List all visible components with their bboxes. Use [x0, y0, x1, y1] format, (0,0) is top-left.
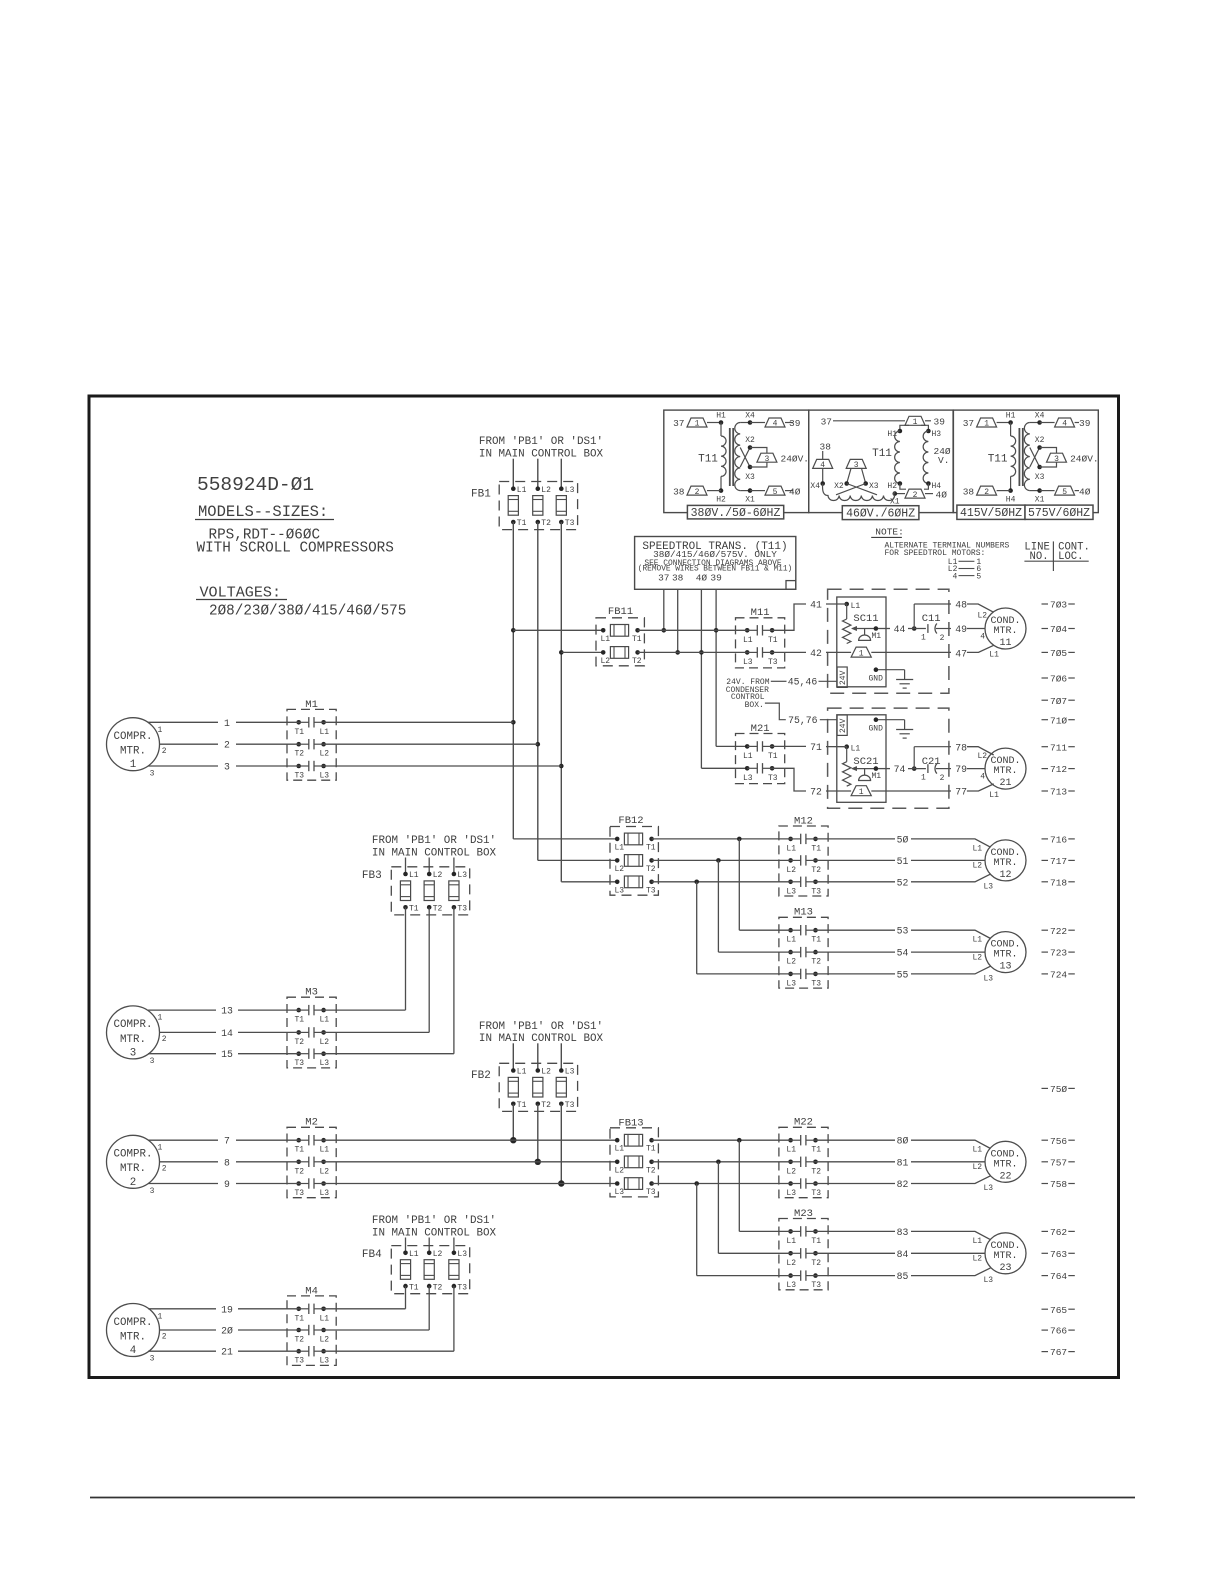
svg-text:MTR.: MTR. — [993, 1159, 1017, 1170]
svg-text:IN MAIN CONTROL BOX: IN MAIN CONTROL BOX — [372, 1227, 497, 1239]
svg-text:79: 79 — [955, 764, 967, 775]
svg-text:T2: T2 — [295, 1336, 305, 1345]
svg-text:T2: T2 — [295, 750, 305, 759]
svg-text:T1: T1 — [646, 843, 656, 852]
svg-text:575V/6ØHZ: 575V/6ØHZ — [1028, 507, 1090, 520]
svg-text:767: 767 — [1050, 1347, 1067, 1358]
svg-text:L2: L2 — [786, 1167, 796, 1176]
svg-text:T2: T2 — [433, 905, 443, 914]
svg-text:84: 84 — [897, 1249, 909, 1260]
svg-text:4: 4 — [1062, 420, 1067, 429]
svg-text:763: 763 — [1050, 1249, 1067, 1260]
svg-text:415V/5ØHZ: 415V/5ØHZ — [960, 507, 1022, 520]
svg-text:7Ø6: 7Ø6 — [1050, 674, 1067, 685]
svg-text:2: 2 — [162, 1333, 167, 1342]
svg-text:T1: T1 — [811, 844, 821, 853]
svg-text:GND: GND — [869, 675, 884, 684]
svg-text:53: 53 — [897, 926, 909, 937]
svg-text:758: 758 — [1050, 1179, 1067, 1190]
svg-text:4: 4 — [773, 420, 778, 429]
svg-text:2Ø: 2Ø — [221, 1326, 233, 1337]
svg-text:T1: T1 — [768, 752, 778, 761]
svg-text:MTR.: MTR. — [120, 1331, 146, 1343]
svg-text:T2: T2 — [811, 1259, 821, 1268]
svg-text:L1: L1 — [320, 1016, 330, 1025]
svg-text:L1: L1 — [786, 844, 796, 853]
svg-text:75Ø: 75Ø — [1050, 1084, 1067, 1095]
svg-text:L3: L3 — [320, 1059, 330, 1068]
svg-text:T3: T3 — [457, 905, 467, 914]
svg-text:45,46: 45,46 — [788, 677, 818, 688]
svg-text:L2: L2 — [320, 1038, 330, 1047]
svg-text:T3: T3 — [811, 887, 821, 896]
svg-text:FROM 'PB1' OR 'DS1': FROM 'PB1' OR 'DS1' — [479, 1021, 603, 1033]
svg-text:38: 38 — [963, 486, 975, 497]
svg-text:765: 765 — [1050, 1305, 1067, 1316]
svg-text:L1: L1 — [989, 791, 999, 800]
svg-text:L2: L2 — [541, 1068, 551, 1077]
svg-text:L2: L2 — [973, 1163, 983, 1172]
svg-text:MODELS--SIZES:: MODELS--SIZES: — [198, 503, 328, 521]
svg-text:FB3: FB3 — [362, 870, 382, 882]
svg-text:IN MAIN CONTROL BOX: IN MAIN CONTROL BOX — [479, 448, 604, 460]
svg-text:WITH SCROLL COMPRESSORS: WITH SCROLL COMPRESSORS — [197, 541, 394, 557]
svg-text:L2: L2 — [320, 750, 330, 759]
svg-text:4: 4 — [130, 1345, 136, 1357]
svg-text:5: 5 — [773, 488, 778, 497]
svg-text:FB12: FB12 — [618, 815, 643, 827]
svg-text:T2: T2 — [811, 1167, 821, 1176]
svg-text:MTR.: MTR. — [120, 1034, 146, 1046]
svg-text:L1: L1 — [743, 752, 753, 761]
svg-text:L2: L2 — [978, 612, 988, 621]
svg-text:42: 42 — [810, 648, 822, 659]
svg-text:39: 39 — [789, 418, 801, 429]
svg-text:2Ø8/23Ø/38Ø/415/46Ø/575: 2Ø8/23Ø/38Ø/415/46Ø/575 — [209, 604, 406, 620]
svg-text:L3: L3 — [984, 974, 994, 983]
svg-text:X4: X4 — [810, 482, 820, 491]
svg-text:C21: C21 — [922, 756, 941, 768]
svg-text:7Ø4: 7Ø4 — [1050, 624, 1067, 635]
svg-text:55: 55 — [897, 969, 909, 980]
svg-text:FROM 'PB1' OR 'DS1': FROM 'PB1' OR 'DS1' — [479, 436, 603, 448]
svg-text:L3: L3 — [786, 887, 796, 896]
svg-text:T1: T1 — [632, 635, 642, 644]
svg-text:5: 5 — [1062, 488, 1067, 497]
svg-text:FB11: FB11 — [608, 606, 633, 618]
svg-text:766: 766 — [1050, 1326, 1067, 1337]
svg-text:1: 1 — [224, 718, 230, 729]
svg-text:MTR.: MTR. — [993, 950, 1017, 961]
svg-text:71: 71 — [810, 742, 822, 753]
svg-text:T1: T1 — [811, 1146, 821, 1155]
svg-text:L1: L1 — [615, 843, 625, 852]
svg-text:M13: M13 — [794, 907, 813, 919]
svg-text:82: 82 — [897, 1179, 909, 1190]
svg-text:3: 3 — [150, 1057, 155, 1066]
svg-text:M1: M1 — [305, 699, 318, 711]
svg-text:X1: X1 — [1035, 496, 1045, 505]
svg-text:23: 23 — [999, 1263, 1011, 1274]
svg-text:COMPR.: COMPR. — [114, 1149, 153, 1161]
svg-text:4Ø: 4Ø — [936, 489, 948, 500]
svg-text:38: 38 — [820, 441, 832, 452]
svg-text:47: 47 — [955, 648, 967, 659]
svg-text:T3: T3 — [646, 886, 656, 895]
svg-text:L3: L3 — [786, 1281, 796, 1290]
svg-text:T3: T3 — [295, 1059, 305, 1068]
svg-text:37: 37 — [673, 418, 684, 429]
svg-text:L1: L1 — [973, 936, 983, 945]
svg-text:2: 2 — [162, 1035, 167, 1044]
svg-text:14: 14 — [221, 1028, 233, 1039]
svg-text:X2: X2 — [834, 482, 844, 491]
svg-text:4: 4 — [980, 772, 985, 781]
svg-text:L1: L1 — [320, 728, 330, 737]
svg-text:COMPR.: COMPR. — [114, 1317, 153, 1329]
svg-text:L2: L2 — [973, 953, 983, 962]
svg-text:2: 2 — [940, 774, 945, 783]
svg-text:3: 3 — [150, 1187, 155, 1196]
svg-text:L3: L3 — [320, 772, 330, 781]
svg-text:24V: 24V — [839, 670, 848, 685]
svg-text:MTR.: MTR. — [993, 766, 1017, 777]
svg-text:8Ø: 8Ø — [897, 1136, 909, 1147]
svg-text:T2: T2 — [646, 1166, 656, 1175]
svg-text:71Ø: 71Ø — [1050, 715, 1067, 726]
svg-text:1: 1 — [913, 418, 918, 427]
svg-text:H1: H1 — [716, 411, 726, 420]
svg-text:13: 13 — [221, 1006, 233, 1017]
svg-text:T3: T3 — [295, 1189, 305, 1198]
svg-text:L1: L1 — [615, 1145, 625, 1154]
svg-text:39: 39 — [1079, 418, 1091, 429]
svg-text:21: 21 — [221, 1347, 233, 1358]
svg-text:77: 77 — [955, 787, 967, 798]
svg-text:2: 2 — [162, 747, 167, 756]
svg-text:COMPR.: COMPR. — [114, 731, 153, 743]
svg-text:H1: H1 — [1006, 411, 1016, 420]
svg-text:T3: T3 — [811, 1189, 821, 1198]
svg-text:L3: L3 — [457, 1250, 467, 1259]
svg-text:T11: T11 — [698, 453, 718, 465]
svg-text:22: 22 — [999, 1171, 1011, 1182]
svg-text:MTR.: MTR. — [993, 626, 1017, 637]
svg-text:4Ø: 4Ø — [696, 573, 708, 584]
svg-text:1: 1 — [984, 420, 989, 429]
svg-text:4: 4 — [980, 632, 985, 641]
svg-text:1: 1 — [859, 650, 864, 659]
svg-text:764: 764 — [1050, 1271, 1067, 1282]
svg-text:72: 72 — [810, 787, 822, 798]
svg-text:81: 81 — [897, 1157, 909, 1168]
svg-text:5: 5 — [976, 572, 981, 581]
svg-text:54: 54 — [897, 948, 909, 959]
svg-text:46ØV./6ØHZ: 46ØV./6ØHZ — [846, 507, 915, 520]
svg-text:7Ø7: 7Ø7 — [1050, 696, 1067, 707]
svg-text:723: 723 — [1050, 948, 1067, 959]
svg-text:L3: L3 — [615, 886, 625, 895]
svg-text:T2: T2 — [541, 519, 551, 528]
svg-text:11: 11 — [999, 638, 1011, 649]
svg-text:3: 3 — [130, 1047, 136, 1059]
svg-text:X3: X3 — [1035, 473, 1045, 482]
svg-text:T1: T1 — [409, 905, 419, 914]
svg-text:37: 37 — [963, 418, 974, 429]
svg-text:L1: L1 — [517, 1068, 527, 1077]
svg-text:T1: T1 — [295, 1016, 305, 1025]
svg-text:78: 78 — [955, 742, 967, 753]
svg-text:T3: T3 — [811, 979, 821, 988]
svg-text:3: 3 — [224, 762, 230, 773]
svg-text:37: 37 — [658, 573, 669, 584]
svg-text:T1: T1 — [409, 1283, 419, 1292]
svg-text:83: 83 — [897, 1227, 909, 1238]
svg-text:762: 762 — [1050, 1227, 1067, 1238]
svg-text:L3: L3 — [743, 774, 753, 783]
svg-text:49: 49 — [955, 624, 967, 635]
svg-text:IN MAIN CONTROL BOX: IN MAIN CONTROL BOX — [479, 1033, 604, 1045]
svg-text:1: 1 — [921, 773, 926, 782]
svg-text:3: 3 — [150, 1355, 155, 1364]
svg-text:H1: H1 — [887, 430, 897, 439]
svg-text:L2: L2 — [601, 657, 611, 666]
svg-text:L2: L2 — [433, 1250, 443, 1259]
svg-text:X1: X1 — [745, 496, 755, 505]
svg-text:T3: T3 — [768, 774, 778, 783]
svg-text:L3: L3 — [565, 486, 575, 495]
svg-text:38ØV./5Ø-6ØHZ: 38ØV./5Ø-6ØHZ — [691, 507, 781, 520]
svg-text:712: 712 — [1050, 764, 1067, 775]
svg-text:X3: X3 — [869, 482, 879, 491]
svg-text:T2: T2 — [433, 1283, 443, 1292]
svg-text:L3: L3 — [320, 1357, 330, 1366]
svg-text:711: 711 — [1050, 742, 1067, 753]
svg-text:L2: L2 — [973, 1255, 983, 1264]
svg-text:T3: T3 — [295, 772, 305, 781]
svg-text:L1: L1 — [851, 745, 861, 754]
svg-text:717: 717 — [1050, 856, 1067, 867]
svg-text:39: 39 — [934, 417, 946, 428]
svg-text:T1: T1 — [295, 1146, 305, 1155]
svg-text:FB1: FB1 — [471, 488, 491, 500]
svg-text:8: 8 — [224, 1157, 230, 1168]
svg-text:VOLTAGES:: VOLTAGES: — [200, 584, 282, 602]
svg-text:L2: L2 — [615, 865, 625, 874]
svg-text:L1: L1 — [973, 1237, 983, 1246]
svg-text:38: 38 — [672, 573, 684, 584]
svg-text:1: 1 — [921, 633, 926, 642]
svg-text:T2: T2 — [541, 1101, 551, 1110]
svg-text:74: 74 — [894, 764, 906, 775]
svg-text:FB2: FB2 — [471, 1070, 491, 1082]
svg-text:L1: L1 — [786, 1146, 796, 1155]
svg-text:713: 713 — [1050, 787, 1067, 798]
svg-text:1: 1 — [158, 1014, 163, 1023]
svg-text:558924D-Ø1: 558924D-Ø1 — [197, 474, 314, 496]
svg-text:7Ø3: 7Ø3 — [1050, 600, 1067, 611]
svg-text:X4: X4 — [745, 411, 755, 420]
svg-text:1: 1 — [158, 1144, 163, 1153]
svg-text:T3: T3 — [565, 519, 575, 528]
svg-text:757: 757 — [1050, 1157, 1067, 1168]
svg-text:T1: T1 — [295, 728, 305, 737]
svg-text:724: 724 — [1050, 970, 1067, 981]
svg-text:24ØV.: 24ØV. — [1070, 453, 1099, 464]
svg-text:X3: X3 — [745, 473, 755, 482]
svg-text:L2: L2 — [978, 752, 988, 761]
svg-text:FB13: FB13 — [618, 1118, 643, 1130]
svg-text:44: 44 — [894, 624, 906, 635]
svg-text:L1: L1 — [517, 486, 527, 495]
svg-text:M21: M21 — [751, 723, 770, 735]
svg-text:85: 85 — [897, 1271, 909, 1282]
svg-text:L3: L3 — [984, 882, 994, 891]
svg-text:X4: X4 — [1035, 411, 1045, 420]
svg-text:37: 37 — [821, 417, 832, 428]
svg-text:24ØV.: 24ØV. — [781, 453, 810, 464]
svg-text:2: 2 — [940, 634, 945, 643]
svg-text:L3: L3 — [615, 1188, 625, 1197]
svg-text:NOTE:: NOTE: — [875, 527, 904, 538]
svg-text:52: 52 — [897, 877, 909, 888]
svg-text:T11: T11 — [988, 453, 1008, 465]
svg-text:SC21: SC21 — [853, 756, 878, 768]
svg-text:T3: T3 — [565, 1101, 575, 1110]
svg-text:756: 756 — [1050, 1136, 1067, 1147]
svg-text:T1: T1 — [811, 936, 821, 945]
svg-text:BOX.: BOX. — [745, 701, 764, 710]
svg-text:L1: L1 — [601, 635, 611, 644]
svg-text:FOR SPEEDTROL MOTORS:: FOR SPEEDTROL MOTORS: — [885, 549, 986, 558]
svg-text:X2: X2 — [745, 436, 755, 445]
svg-text:2: 2 — [695, 488, 700, 497]
svg-text:T3: T3 — [295, 1357, 305, 1366]
svg-text:2: 2 — [913, 491, 918, 500]
svg-text:X2: X2 — [1035, 436, 1045, 445]
svg-text:L1: L1 — [786, 936, 796, 945]
svg-text:T2: T2 — [646, 865, 656, 874]
svg-text:L2: L2 — [320, 1336, 330, 1345]
svg-text:T1: T1 — [811, 1237, 821, 1246]
svg-text:T1: T1 — [517, 1101, 527, 1110]
svg-text:M4: M4 — [305, 1285, 318, 1297]
svg-text:M3: M3 — [305, 987, 318, 999]
svg-text:1: 1 — [130, 759, 136, 771]
svg-text:T2: T2 — [811, 866, 821, 875]
svg-text:722: 722 — [1050, 926, 1067, 937]
svg-text:24V: 24V — [839, 718, 848, 733]
svg-text:MTR.: MTR. — [120, 746, 146, 758]
svg-text:H2: H2 — [887, 482, 897, 491]
svg-text:L3: L3 — [565, 1068, 575, 1077]
svg-text:M1: M1 — [872, 632, 882, 641]
svg-text:13: 13 — [999, 962, 1011, 973]
svg-text:41: 41 — [810, 600, 822, 611]
svg-text:C11: C11 — [922, 613, 941, 625]
svg-text:L1: L1 — [320, 1314, 330, 1323]
svg-text:L3: L3 — [320, 1189, 330, 1198]
svg-text:T2: T2 — [295, 1167, 305, 1176]
svg-text:T1: T1 — [295, 1314, 305, 1323]
svg-text:L2: L2 — [786, 866, 796, 875]
svg-text:2: 2 — [224, 740, 230, 751]
svg-text:L1: L1 — [973, 844, 983, 853]
svg-text:L2: L2 — [615, 1166, 625, 1175]
svg-text:H4: H4 — [1006, 496, 1016, 505]
svg-text:M22: M22 — [794, 1117, 813, 1129]
svg-text:15: 15 — [221, 1049, 233, 1060]
svg-text:T2: T2 — [811, 958, 821, 967]
svg-text:4: 4 — [953, 572, 958, 581]
svg-text:4Ø: 4Ø — [1079, 486, 1091, 497]
svg-text:T1: T1 — [768, 636, 778, 645]
svg-text:L1: L1 — [989, 651, 999, 660]
svg-text:L1: L1 — [973, 1146, 983, 1155]
svg-text:5Ø: 5Ø — [897, 834, 909, 845]
svg-text:718: 718 — [1050, 877, 1067, 888]
svg-text:75,76: 75,76 — [788, 715, 818, 726]
svg-text:T3: T3 — [457, 1283, 467, 1292]
svg-text:H2: H2 — [716, 496, 726, 505]
svg-text:L1: L1 — [851, 602, 861, 611]
svg-text:38: 38 — [673, 486, 685, 497]
svg-text:L2: L2 — [320, 1167, 330, 1176]
svg-text:4Ø: 4Ø — [789, 486, 801, 497]
svg-text:1: 1 — [859, 788, 864, 797]
svg-text:1: 1 — [158, 726, 163, 735]
svg-text:L3: L3 — [743, 658, 753, 667]
svg-text:T2: T2 — [632, 657, 642, 666]
svg-text:L3: L3 — [984, 1184, 994, 1193]
svg-text:L2: L2 — [973, 862, 983, 871]
svg-text:L2: L2 — [541, 486, 551, 495]
svg-text:T3: T3 — [811, 1281, 821, 1290]
svg-text:M23: M23 — [794, 1208, 813, 1220]
svg-text:L2: L2 — [786, 1259, 796, 1268]
svg-text:7: 7 — [224, 1136, 230, 1147]
svg-text:GND: GND — [869, 725, 884, 734]
svg-text:L3: L3 — [984, 1276, 994, 1285]
svg-text:M11: M11 — [751, 607, 770, 619]
svg-text:12: 12 — [999, 870, 1011, 881]
svg-text:FROM 'PB1' OR 'DS1': FROM 'PB1' OR 'DS1' — [372, 835, 496, 847]
svg-text:2: 2 — [984, 488, 989, 497]
svg-text:T11: T11 — [872, 448, 892, 460]
svg-text:3: 3 — [150, 770, 155, 779]
svg-text:T3: T3 — [768, 658, 778, 667]
svg-text:2: 2 — [130, 1177, 136, 1189]
svg-text:COMPR.: COMPR. — [114, 1019, 153, 1031]
svg-text:48: 48 — [955, 600, 967, 611]
svg-text:L1: L1 — [786, 1237, 796, 1246]
svg-text:T3: T3 — [646, 1188, 656, 1197]
svg-text:M2: M2 — [305, 1117, 318, 1129]
svg-text:21: 21 — [999, 778, 1011, 789]
svg-text:1: 1 — [158, 1312, 163, 1321]
svg-text:H3: H3 — [932, 430, 942, 439]
svg-text:M1: M1 — [872, 772, 882, 781]
svg-text:2: 2 — [162, 1164, 167, 1173]
svg-text:SC11: SC11 — [853, 613, 878, 625]
svg-text:51: 51 — [897, 856, 909, 867]
svg-text:MTR.: MTR. — [120, 1163, 146, 1175]
svg-text:L1: L1 — [320, 1146, 330, 1155]
svg-text:L1: L1 — [743, 636, 753, 645]
svg-text:FB4: FB4 — [362, 1249, 382, 1261]
svg-text:L3: L3 — [786, 1189, 796, 1198]
svg-text:L3: L3 — [786, 979, 796, 988]
